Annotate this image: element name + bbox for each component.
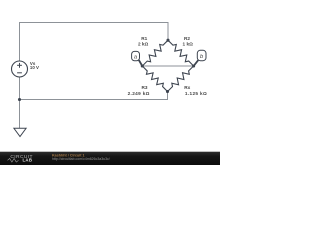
svg-text:R3: R3: [142, 85, 148, 90]
svg-text:R2: R2: [184, 36, 190, 41]
svg-text:2 kΩ: 2 kΩ: [138, 41, 149, 46]
svg-text:1 kΩ: 1 kΩ: [183, 41, 194, 46]
svg-text:LAB: LAB: [23, 158, 33, 163]
svg-text:http://circuitlab.com/c4m626c3: http://circuitlab.com/c4m626c3a3u3c/: [52, 157, 110, 161]
svg-text:10 V: 10 V: [30, 65, 39, 70]
svg-text:R1: R1: [141, 36, 147, 41]
svg-text:2.249 kΩ: 2.249 kΩ: [128, 91, 150, 96]
svg-text:Rx: Rx: [184, 85, 190, 90]
svg-text:1.125 kΩ: 1.125 kΩ: [185, 91, 207, 96]
